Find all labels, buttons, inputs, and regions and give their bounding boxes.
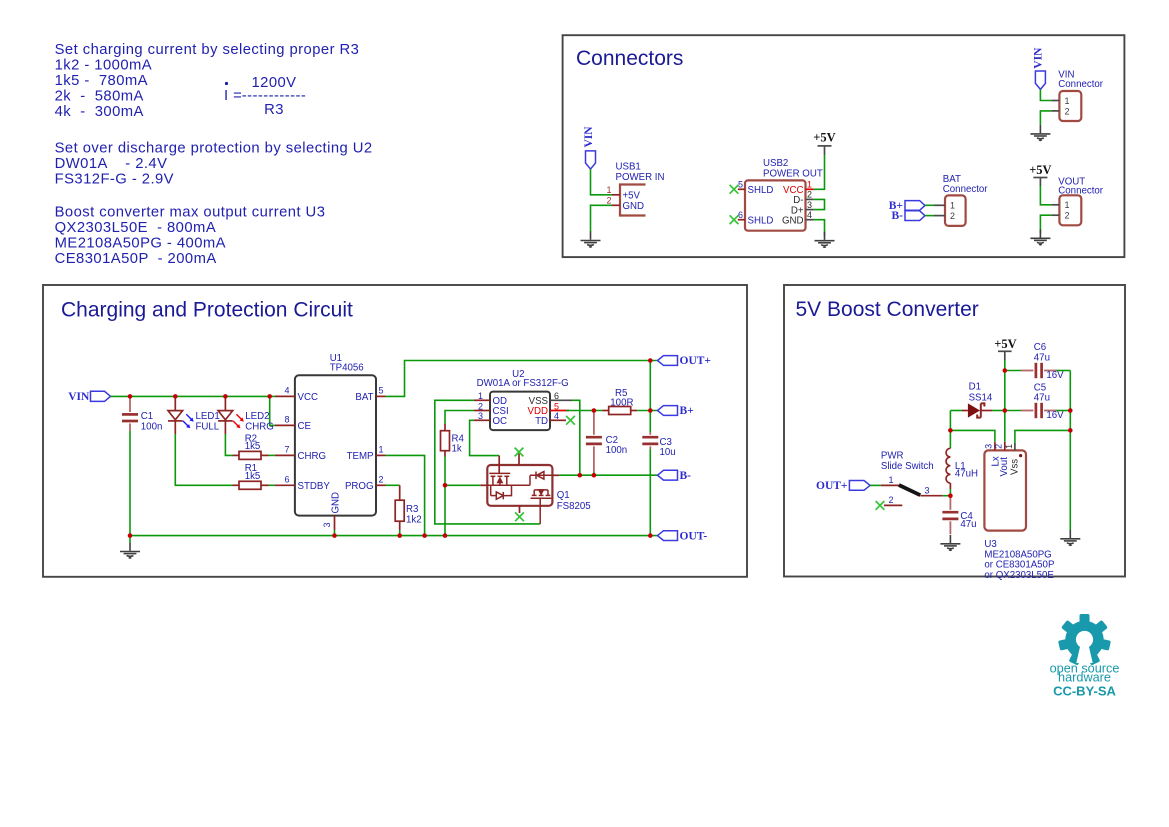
global label OUT- (658, 530, 708, 542)
svg-text:4: 4 (284, 386, 289, 396)
wire VIN to USB1 pin1 (591, 169, 613, 195)
wire OD to Q1 gate2 (435, 400, 540, 524)
wire +5V down to Vout pin (1004, 360, 1006, 442)
wire R2 to CHRG (269, 454, 275, 456)
svg-text:100R: 100R (610, 398, 633, 409)
wire anode down to Lx node (949, 411, 951, 431)
svg-text:Slide Switch: Slide Switch (881, 461, 934, 472)
wire Vss pin to right rail (1015, 430, 1070, 443)
global label OUT+ (boost) (816, 480, 870, 492)
resistor R5 100R (566, 388, 637, 414)
svg-text:DW01A or FS312F-G: DW01A or FS312F-G (477, 378, 569, 389)
wire CE branch (270, 396, 275, 425)
connector BAT (934, 174, 988, 226)
svg-text:SS14: SS14 (969, 392, 993, 403)
svg-text:+5V: +5V (813, 131, 835, 145)
wire VIN flag to P pin1 (1040, 89, 1051, 100)
wire D- to D+ loop (814, 199, 825, 209)
svg-text:5: 5 (378, 386, 383, 396)
svg-text:I =: I = (224, 88, 242, 104)
svg-text:3: 3 (322, 522, 332, 527)
wire OUT+ to B+ vertical (649, 361, 651, 411)
svg-text:ME2108A50PG - 400mA: ME2108A50PG - 400mA (55, 236, 226, 252)
svg-text:2: 2 (950, 211, 955, 221)
ground (charging) (120, 543, 140, 559)
svg-text:OUT+: OUT+ (816, 480, 847, 492)
connector USB1 POWER IN (606, 162, 664, 216)
svg-text:3: 3 (983, 444, 993, 449)
no-connect X Q1 bottom (515, 512, 524, 521)
wire node to Q1 source1 (445, 484, 480, 486)
ground (USB1) (581, 232, 601, 248)
no-connect X USB2 pin 6 (730, 215, 739, 224)
junction VSS/B- (578, 473, 583, 478)
resistor R4 1k (441, 424, 465, 457)
connector USB2 POWER OUT (738, 158, 823, 231)
wire C2 to B- (593, 472, 595, 475)
wire PROG to R3 (386, 484, 400, 486)
svg-text:LED1: LED1 (196, 411, 220, 422)
svg-text:2: 2 (888, 495, 893, 505)
svg-text:USB1: USB1 (616, 162, 641, 173)
svg-text:2: 2 (994, 444, 1004, 449)
junction C5/D1/+5V (1003, 408, 1008, 413)
svg-text:2: 2 (606, 196, 611, 206)
ground (VOUT connector) (1030, 229, 1050, 245)
IC U1 TP4056 (275, 353, 386, 530)
global label B- (charging) (658, 470, 692, 482)
junction CE branch (267, 394, 272, 399)
svg-text:C1: C1 (141, 411, 153, 422)
svg-text:OUT+: OUT+ (680, 355, 711, 367)
power +5V (boost) (994, 337, 1016, 360)
wire P pin2 to ground (1040, 111, 1051, 125)
wire +5V to VOUT pin1 (1040, 186, 1051, 205)
capacitor C3 10u (642, 411, 675, 459)
svg-text:1: 1 (950, 201, 955, 211)
svg-text:1: 1 (1004, 444, 1014, 449)
svg-text:Connector: Connector (943, 184, 988, 195)
svg-text:OC: OC (493, 416, 508, 427)
svg-text:SHLD: SHLD (748, 215, 774, 226)
capacitor C6 47u (1005, 342, 1064, 381)
wire VIN rail (111, 395, 275, 397)
svg-text:VIN: VIN (1033, 47, 1045, 69)
power flag VIN (VIN connector) (1033, 47, 1046, 89)
junction R3/rail (397, 533, 402, 538)
no-connect X TD pin4 (566, 416, 575, 425)
diode D1 SS14 (950, 382, 993, 418)
resistor R2 1k5 (233, 433, 269, 459)
wire B+ to BAT pin1 (925, 204, 934, 206)
frame: Connectors box (563, 35, 1125, 257)
power +5V (VOUT connector) (1029, 163, 1051, 186)
svg-text:CHRG: CHRG (245, 422, 274, 433)
wire USB2 GND to ground (814, 220, 825, 236)
global label B+ (charging) (658, 405, 694, 417)
svg-text:6: 6 (284, 475, 289, 485)
svg-text:16V: 16V (1046, 410, 1064, 421)
junction B+ node (648, 408, 653, 413)
svg-text:Set over discharge protection: Set over discharge protection by selecti… (55, 141, 373, 157)
svg-text:4: 4 (554, 411, 559, 421)
wire C3 down to OUT- rail (649, 449, 651, 536)
svg-text:4: 4 (807, 210, 812, 220)
svg-text:1: 1 (888, 475, 893, 485)
svg-text:B-: B- (680, 470, 692, 482)
svg-text:1: 1 (807, 179, 812, 189)
svg-text:SHLD: SHLD (748, 185, 774, 196)
svg-text:CC-BY-SA: CC-BY-SA (1053, 683, 1116, 698)
global label OUT+ (658, 355, 711, 367)
svg-text:TD: TD (535, 416, 548, 427)
connector VIN (1051, 70, 1103, 121)
svg-text:Q1: Q1 (557, 490, 570, 501)
svg-text:CE: CE (298, 421, 312, 432)
wire +5V to USB2 VCC (814, 155, 825, 189)
svg-text:DW01A - 2.4V: DW01A - 2.4V (55, 156, 168, 172)
svg-text:FULL: FULL (196, 422, 220, 433)
logo text open source hardware (1050, 662, 1120, 699)
svg-text:6: 6 (554, 391, 559, 401)
svg-text:D1: D1 (969, 382, 981, 393)
frame: Charging and Protection Circuit box (43, 285, 747, 577)
svg-text:VCC: VCC (298, 392, 318, 403)
svg-text:CHRG: CHRG (298, 451, 327, 462)
global label VIN (68, 391, 110, 403)
wire USB1 pin2 to ground (591, 205, 613, 232)
svg-text:+5V: +5V (623, 190, 641, 201)
svg-text:CE8301A50P - 200mA: CE8301A50P - 200mA (55, 251, 217, 267)
svg-text:VIN: VIN (68, 391, 90, 403)
junction L1/D1/Lx (948, 428, 953, 433)
wire OUT- rail (130, 535, 658, 537)
svg-text:hardware: hardware (1058, 670, 1111, 684)
wire right rail (1069, 371, 1071, 531)
junction C5 right/rail (1068, 408, 1073, 413)
junction C2 top (592, 408, 597, 413)
svg-text:6: 6 (738, 210, 743, 220)
svg-text:2k - 580mA: 2k - 580mA (55, 89, 144, 105)
wire VOUT pin2 to ground (1040, 215, 1051, 233)
svg-text:47u: 47u (960, 519, 976, 530)
wire B- to BAT pin2 (925, 215, 934, 217)
ground (right rail) (1060, 530, 1080, 546)
svg-text:100n: 100n (606, 445, 628, 456)
wire R5 to B+ (637, 410, 657, 412)
svg-text:LED2: LED2 (245, 411, 269, 422)
capacitor C1 (122, 396, 162, 432)
svg-text:7: 7 (284, 445, 289, 455)
svg-text:5V Boost Converter: 5V Boost Converter (796, 298, 979, 321)
transistor Q1 FS8205 dual MOSFET (487, 454, 590, 524)
svg-text:Charging and Protection Circui: Charging and Protection Circuit (61, 299, 353, 322)
junction LED1/VIN rail (173, 394, 178, 399)
junction LED2/VIN rail (223, 394, 228, 399)
svg-text:+5V: +5V (1029, 163, 1051, 177)
svg-text:47u: 47u (1034, 393, 1050, 404)
svg-text:5: 5 (554, 401, 559, 411)
resistor R1 1k5 (233, 463, 269, 489)
svg-text:QX2303L50E - 800mA: QX2303L50E - 800mA (55, 220, 217, 236)
svg-text:2: 2 (1065, 106, 1070, 116)
no-connect X USB2 pin 5 (730, 185, 739, 194)
svg-text:2: 2 (378, 475, 383, 485)
note: charging current table (55, 42, 360, 120)
svg-text:Connector: Connector (1058, 79, 1103, 90)
svg-text:5: 5 (738, 179, 743, 189)
svg-text:+5V: +5V (994, 337, 1016, 351)
note: over discharge protection (55, 141, 373, 188)
power flag VIN (at USB1) (583, 126, 596, 169)
svg-text:1: 1 (378, 445, 383, 455)
svg-text:8: 8 (284, 415, 289, 425)
wire to ground (129, 536, 131, 543)
svg-text:GND: GND (623, 201, 645, 212)
formula I = 1200V / R3 (224, 75, 306, 118)
junction OUT+ node (648, 358, 653, 363)
wire OUT+ to switch (870, 484, 881, 486)
svg-text:2: 2 (807, 190, 812, 200)
wire R4 to B- node (444, 457, 446, 486)
svg-text:USB2: USB2 (763, 158, 788, 169)
svg-text:Connectors: Connectors (576, 47, 683, 70)
ground (C4) (940, 535, 960, 551)
svg-text:GND: GND (330, 492, 341, 514)
svg-text:16V: 16V (1046, 370, 1064, 381)
ground (USB2) (815, 232, 835, 248)
junction Vss/rail (1068, 428, 1073, 433)
svg-text:3: 3 (478, 411, 483, 421)
svg-text:2: 2 (1065, 211, 1070, 221)
svg-text:TEMP: TEMP (347, 451, 374, 462)
frame: 5V Boost Converter box (784, 285, 1125, 577)
svg-text:1k5: 1k5 (245, 471, 261, 482)
junction C2 bottom (592, 473, 597, 478)
connector VOUT (1051, 176, 1103, 225)
svg-text:10u: 10u (660, 447, 676, 458)
global label B- (892, 210, 926, 222)
note: boost converter max current (55, 205, 326, 268)
inductor L1 47uH (946, 430, 978, 489)
svg-text:4k - 300mA: 4k - 300mA (55, 104, 144, 120)
svg-text:1: 1 (1065, 200, 1070, 210)
logo: OSHW gear (1058, 614, 1111, 666)
junction C6 left (1003, 368, 1008, 373)
wire CSI to R4 (445, 411, 474, 425)
svg-text:1k2 - 1000mA: 1k2 - 1000mA (55, 58, 153, 74)
svg-text:TP4056: TP4056 (330, 363, 364, 374)
svg-text:FS312F-G - 2.9V: FS312F-G - 2.9V (55, 172, 174, 188)
wire Q1 drain to B- (552, 474, 559, 476)
wire GND pin to rail (334, 530, 336, 536)
svg-text:100n: 100n (141, 421, 163, 432)
svg-text:OUT-: OUT- (680, 530, 708, 542)
wire VSS down to B- (572, 400, 580, 475)
wire LED2 to R2 (225, 434, 232, 455)
IC U2 DW01A (474, 369, 572, 430)
svg-text:Vss: Vss (1009, 459, 1020, 475)
svg-text:STDBY: STDBY (298, 481, 331, 492)
svg-text:47uH: 47uH (955, 469, 978, 480)
junction switch/L1/C4 (948, 493, 953, 498)
wire R3 to rail (399, 530, 401, 536)
svg-text:1k5: 1k5 (245, 441, 261, 452)
capacitor C2 100n (586, 411, 627, 473)
svg-text:Boost converter max output cur: Boost converter max output current U3 (55, 205, 326, 221)
junction C1/OUT- rail (128, 533, 133, 538)
svg-text:POWER OUT: POWER OUT (763, 169, 823, 180)
wire C1 to OUT- rail (129, 431, 131, 536)
svg-text:1: 1 (478, 391, 483, 401)
svg-text:or QX2303L50E: or QX2303L50E (984, 570, 1054, 581)
no-connect X Q1 top (515, 448, 524, 457)
svg-text:PWR: PWR (881, 450, 904, 461)
svg-text:B-: B- (892, 210, 904, 222)
svg-text:1k: 1k (452, 443, 462, 454)
capacitor C5 47u (1005, 382, 1064, 421)
wire Lx node to pin3 (950, 430, 995, 441)
svg-text:PROG: PROG (345, 481, 374, 492)
wire B- node down to rail (444, 485, 446, 535)
switch SW1 PWR slide switch (881, 450, 943, 505)
svg-text:Set charging current by select: Set charging current by selecting proper… (55, 42, 360, 58)
wire OC to Q1 gate1 (470, 420, 500, 455)
svg-text:3: 3 (807, 200, 812, 210)
resistor R3 1k2 (395, 485, 421, 530)
wire C6 to right rail (1057, 370, 1071, 372)
junction R4/Q1 source (443, 483, 448, 488)
svg-text:1k2: 1k2 (406, 514, 422, 525)
svg-text:1: 1 (1065, 96, 1070, 106)
junction R4 column/rail (443, 533, 448, 538)
svg-text:47u: 47u (1034, 352, 1050, 363)
ground (VIN connector) (1030, 125, 1050, 141)
svg-text:1k5 - 780mA: 1k5 - 780mA (55, 73, 148, 89)
wire switch to L1 node (943, 495, 951, 497)
svg-text:POWER IN: POWER IN (616, 172, 665, 183)
svg-text:1: 1 (606, 185, 611, 195)
svg-text:VIN: VIN (583, 126, 595, 148)
junction C1/VIN rail (128, 394, 133, 399)
power +5V (USB2) (813, 131, 835, 155)
wire D1 to +5V node (992, 410, 1005, 412)
IC U3 boost (983, 442, 1054, 581)
LED1 FULL (168, 396, 220, 434)
wire R1 to STDBY (269, 484, 275, 486)
svg-text:B+: B+ (680, 405, 694, 417)
wire BAT to OUT+ rail (386, 361, 658, 397)
svg-text:2: 2 (478, 401, 483, 411)
svg-text:GND: GND (782, 215, 804, 226)
junction C3/OUT- (648, 533, 653, 538)
junction GND pin/rail (332, 533, 337, 538)
capacitor C4 47u (942, 496, 976, 534)
wire TEMP down (386, 455, 425, 535)
svg-text:R3: R3 (264, 102, 284, 118)
no-connect X switch pin2 (876, 501, 885, 510)
wire LED1 to R1 row (175, 434, 232, 485)
svg-text:3: 3 (924, 486, 929, 496)
svg-text:FS8205: FS8205 (557, 501, 591, 512)
global label B+ (889, 200, 925, 212)
junction TEMP/rail (422, 533, 427, 538)
svg-text:BAT: BAT (355, 392, 373, 403)
LED2 CHRG (218, 396, 274, 434)
wire L1 to switch node (949, 489, 951, 496)
wire C5 to right rail (1057, 410, 1071, 412)
